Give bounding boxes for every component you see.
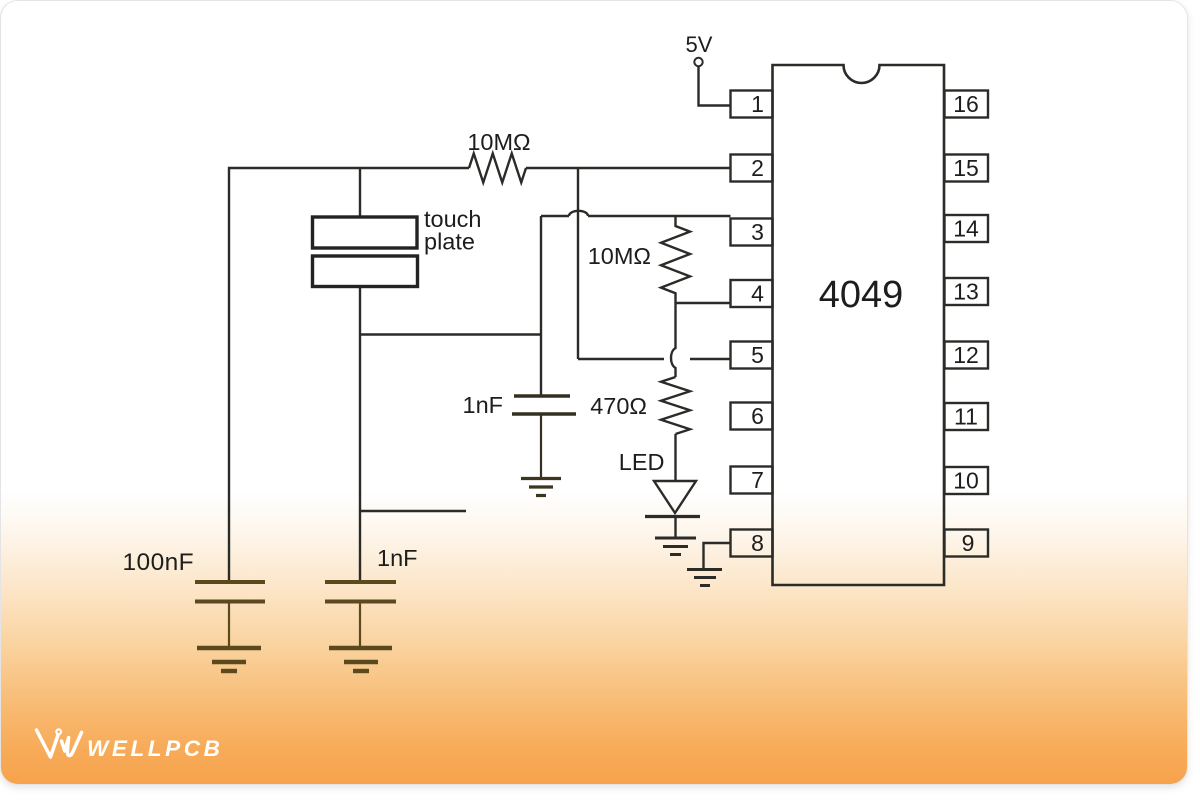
capacitor C2 1nF mid (512, 396, 576, 414)
pin 8 (731, 530, 773, 557)
pin boxes right (945, 91, 989, 557)
wire hop pin3 (569, 211, 588, 216)
svg-text:8: 8 (751, 530, 764, 556)
wire C3 to ground (359, 602, 361, 647)
5V terminal (694, 58, 702, 66)
wire vertical node B (577, 168, 579, 359)
ground C2 (521, 479, 561, 496)
capacitor C3 1nF bottom (325, 582, 396, 602)
wire pin5 left (578, 358, 664, 360)
pin numbers right (953, 91, 979, 556)
capacitor C1 100nF (195, 582, 265, 602)
touch plate (313, 217, 418, 287)
svg-text:1nF: 1nF (463, 392, 504, 418)
wire touch plate bottom to cap (359, 287, 361, 581)
pin 5 (731, 342, 773, 369)
pin 12 (945, 342, 989, 369)
pin 1 (731, 91, 773, 118)
svg-text:13: 13 (953, 279, 979, 305)
pin boxes left (731, 91, 773, 557)
svg-text:10MΩ: 10MΩ (588, 243, 651, 269)
wire C2 top vertical (540, 216, 542, 395)
svg-text:470Ω: 470Ω (590, 393, 647, 419)
LED cathode bar (645, 515, 700, 518)
pin 15 (945, 155, 989, 182)
IC U1 4049 body (773, 65, 945, 585)
resistor R1 10M zigzag (469, 154, 526, 183)
svg-text:100nF: 100nF (123, 549, 194, 576)
svg-text:3: 3 (751, 219, 764, 245)
wire stub (360, 510, 466, 512)
pin 4 (731, 280, 773, 307)
wire pin3 right (588, 215, 731, 217)
svg-text:1nF: 1nF (377, 545, 418, 571)
wire to C2 (360, 333, 541, 335)
svg-text:2: 2 (751, 155, 764, 181)
wire resistor to pin2 (526, 167, 731, 169)
pin 11 (945, 403, 989, 430)
wire pin4 (676, 302, 731, 304)
pin 3 (731, 219, 773, 246)
wire pin3 left (541, 215, 569, 217)
wire 5V to pin1 (699, 67, 731, 106)
wire touch plate top (359, 168, 361, 217)
svg-text:LED: LED (619, 449, 665, 475)
wire pin8 to ground (704, 543, 731, 568)
resistor R2 10M vertical (661, 216, 690, 303)
wire LED to ground (674, 517, 676, 538)
pin 2 (731, 155, 773, 182)
ground C3 (329, 648, 392, 671)
ground C1 (197, 648, 261, 671)
logo W mark (37, 729, 82, 757)
pin 6 (731, 403, 773, 430)
wire C1 to ground (228, 602, 230, 647)
svg-text:11: 11 (954, 404, 978, 430)
svg-text:plate: plate (424, 229, 475, 255)
pin 9 (945, 530, 989, 557)
svg-text:7: 7 (751, 467, 764, 493)
svg-text:10MΩ: 10MΩ (467, 129, 530, 155)
svg-text:1: 1 (751, 91, 764, 117)
pin 14 (945, 215, 989, 242)
pin 7 (731, 467, 773, 494)
wire pin5 right (690, 358, 731, 360)
ground pin8 (687, 570, 722, 586)
svg-text:5: 5 (751, 342, 764, 368)
svg-text:15: 15 (953, 155, 979, 181)
svg-text:5V: 5V (686, 32, 713, 57)
svg-text:16: 16 (953, 91, 979, 117)
svg-text:10: 10 (953, 468, 979, 494)
pin 10 (945, 467, 989, 494)
svg-text:WELLPCB: WELLPCB (87, 736, 223, 761)
svg-text:14: 14 (953, 216, 979, 242)
LED D1 (654, 481, 696, 513)
svg-text:9: 9 (962, 530, 975, 556)
svg-text:12: 12 (953, 342, 979, 368)
resistor R3 470 (661, 377, 690, 434)
svg-text:4049: 4049 (819, 274, 904, 316)
ground LED (655, 538, 696, 555)
wire C2 to ground (540, 414, 542, 477)
wire R2 to R3 with hop (671, 303, 676, 377)
wire R3 to LED (674, 434, 676, 481)
svg-text:6: 6 (751, 403, 764, 429)
pin 16 (945, 91, 989, 118)
pin 13 (945, 278, 989, 305)
pin numbers left (751, 91, 764, 556)
wire top net pin2 (229, 168, 469, 581)
svg-text:4: 4 (751, 281, 764, 307)
